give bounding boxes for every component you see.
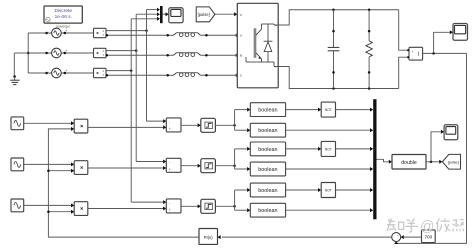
wire signal i1 to vertical [106,29,148,32]
svg-text:A: A [240,34,242,38]
relay block R3 [201,199,216,213]
wire NOT 2 to mux [336,147,374,151]
logical NOT block N2 [321,141,335,156]
svg-text:boolean: boolean [258,167,277,173]
wire current signal 1 vertical [146,10,148,122]
svg-text:powergui: powergui [56,24,70,28]
wire Vdc feedback [394,53,466,244]
node bottom rail junctions [332,87,370,90]
sine wave source Sin3 [11,199,24,212]
wire electrical row 2 to inductor [106,54,174,57]
svg-text:NOT: NOT [325,188,332,192]
wire NOT 1 to mux [336,108,374,112]
boolean block B3 [250,142,285,156]
svg-text:Discrete: Discrete [55,8,73,14]
bridge port labels [240,13,277,78]
sine wave source Sin1 [11,117,24,130]
wire current signal 1 to mux [147,8,160,12]
svg-text:PI(s): PI(s) [204,235,213,240]
wire bus to product 2 [47,169,74,173]
PI controller block [199,229,218,245]
wire current signal 3 vertical [130,19,132,202]
wire Vdc out [423,52,467,55]
capacitor C1 [328,10,340,89]
wire ground branch [14,53,28,77]
wire sum 3 to relay [181,204,201,208]
boolean block B4 [250,162,285,176]
wire sine 3 to product [24,203,74,207]
svg-text:B: B [240,54,242,58]
diode D1 [264,24,273,62]
boolean block B2 [250,123,285,137]
wire bus to source 1 [28,32,51,35]
wire electrical row 1 to inductor [106,34,174,37]
product block X3 [74,202,88,216]
svg-text:+: + [397,234,399,238]
wire sum to PI [218,235,392,239]
svg-text:+: + [169,208,171,212]
svg-text:NOT: NOT [325,147,332,151]
scope Scope2 [453,24,468,41]
svg-text:[pulse]: [pulse] [198,12,210,17]
AC voltage source V1 [52,28,68,38]
product block X2 [74,161,88,175]
wire product 1 out [88,125,167,129]
svg-text:boolean: boolean [258,128,277,134]
wire current signal 2 vertical [135,14,137,161]
current measurement block i1 [94,28,107,37]
boolean block B6 [250,203,285,217]
boolean block B5 [250,183,285,197]
boolean block B1 [250,103,285,117]
wire bus to source 2 [28,52,51,55]
svg-text:-: - [394,238,395,242]
powergui block [44,6,82,23]
wire Vdc to scope [434,30,453,53]
wire relay 2 to split [215,164,235,167]
wire current signal 2 to mux [136,12,160,16]
wire sine 2 to product [24,162,74,166]
svg-text:[pulse]: [pulse] [448,160,459,164]
inductor L3 [174,73,201,77]
relay block R2 [201,159,216,173]
svg-text:boolean: boolean [258,108,277,114]
wire boolean 4 to mux [286,167,374,171]
svg-text:+: + [169,127,171,131]
wire signal i2 to vertical [106,49,137,52]
wire sum 1 to relay [181,123,201,127]
svg-text:boolean: boolean [258,188,277,194]
wire inductor L3 to bridge [200,74,237,77]
relay block R1 [201,118,216,132]
wire current signal 3 to mux [131,17,160,21]
mux M1 [160,6,163,23]
wire split 3 [235,188,251,212]
logical NOT block N1 [321,102,335,117]
constant block 700 [422,230,436,243]
wire relay 3 to split [215,205,235,208]
wire boolean 5 to NOT [286,188,322,192]
universal bridge block [237,3,278,88]
scope Scope1 [169,8,183,23]
AC voltage source V3 [52,68,68,78]
wire split 1 [235,108,251,133]
wire relay 1 to split [215,124,235,127]
wire split 2 [235,147,251,171]
wire product 2 out [88,166,167,170]
wire mux M2 to double [377,159,393,164]
wire 700 to sum [401,235,422,239]
wire boolean 3 to NOT [286,147,322,151]
wire current signal 3 to comparator [131,200,166,204]
wire source 1 to current measurement [61,32,93,35]
IGBT-diode top/bottom ties [262,24,279,67]
wire boolean 1 to NOT [286,108,322,112]
scope Scope3 [444,125,458,140]
from tag [pulse] [196,7,215,22]
inductor L2 [174,53,201,57]
wire boolean 6 to mux [286,208,374,212]
wire source 3 to current measurement [61,72,93,75]
product block X1 [74,119,88,133]
svg-text:NOT: NOT [325,108,332,112]
data type conversion double [392,155,426,170]
wire product 3 out [88,207,167,211]
wire bus to product 3 [47,210,74,214]
wire sine 1 to product [24,121,74,125]
node top rail junctions [332,9,370,12]
powergui label [56,24,70,28]
sum block S1 [166,118,181,132]
logical NOT block N3 [321,183,335,198]
wire [pulse] to gate g [215,12,237,16]
current measurement block i3 [94,68,107,77]
svg-text:1e-06 s.: 1e-06 s. [55,14,72,20]
voltage measurement block Vdc [407,47,423,60]
wire signal i3 to vertical [106,69,132,72]
wire bus to source 3 [28,72,51,75]
current measurement block i2 [94,48,107,57]
goto tag [pulse] [442,154,460,169]
sine wave source Sin2 [11,158,24,171]
svg-text:double: double [401,160,417,166]
AC voltage source V2 [52,48,68,58]
mux M2 [373,99,376,219]
wire mux M1 to scope [163,12,169,16]
wire source 2 to current measurement [61,52,93,55]
wire left bus [27,33,30,73]
svg-text:+: + [169,167,171,171]
watermark zhihu [387,218,464,235]
wire bridge - to bottom rail [278,67,399,89]
wire electrical row 3 to inductor [106,74,174,77]
resistor R1 [366,10,372,89]
svg-text:boolean: boolean [258,208,277,214]
ground [10,75,19,84]
sum junction block [392,233,401,242]
wire inductor L1 to bridge [200,34,237,37]
sum block S3 [166,199,181,213]
sum block S2 [166,158,181,172]
svg-text:boolean: boolean [258,147,277,153]
wire PI output bus [48,127,199,237]
wire sum 2 to relay [181,164,201,168]
wire current signal 2 to comparator [136,160,166,164]
wire double out [426,160,442,164]
wire boolean 2 to mux [286,128,374,132]
wire NOT 3 to mux [336,188,374,192]
wire right edge to voltage measurement [399,10,408,89]
wire bridge + to top rail [278,10,399,25]
svg-text:@: @ [420,219,435,235]
wire double to scope3 [431,130,444,162]
wire inductor L2 to bridge [200,54,237,57]
svg-text:+: + [411,50,413,54]
IGBT Q1 [246,24,262,62]
wire current signal 1 to comparator [147,119,167,123]
inductor L1 [174,33,201,37]
